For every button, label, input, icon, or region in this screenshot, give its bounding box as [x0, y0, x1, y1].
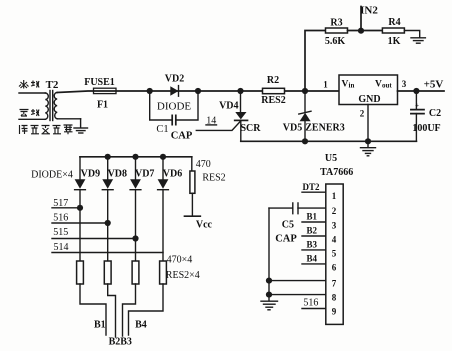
pin 4 (B2): [302, 226, 337, 245]
node: 517-VD9: [77, 205, 83, 211]
net 514: [52, 242, 163, 253]
wire: regulator pin2: [367, 105, 369, 142]
svg-text:out: out: [382, 82, 392, 90]
svg-text:B4: B4: [135, 320, 147, 331]
svg-text:5: 5: [332, 249, 337, 259]
ground (R4): [411, 38, 425, 43]
power Vcc: [185, 216, 213, 230]
svg-text:3: 3: [332, 221, 337, 231]
zener diode VD5: [283, 91, 345, 141]
svg-text:CAP: CAP: [171, 131, 193, 142]
svg-text:B3: B3: [307, 240, 318, 250]
wire: B2 output: [108, 284, 116, 337]
thyristor VD4 (SCR): [196, 91, 261, 141]
wire: riser to R3: [305, 31, 326, 92]
ground (IC): [261, 295, 278, 310]
wire: R3 to R4: [348, 30, 383, 32]
ground (regulator): [361, 141, 376, 156]
svg-text:VD7: VD7: [135, 169, 154, 180]
net IN2: [360, 5, 378, 31]
svg-text:470: 470: [196, 159, 211, 170]
node: rail-VD8: [105, 154, 111, 160]
svg-text:VD5: VD5: [283, 123, 302, 134]
svg-text:3: 3: [402, 79, 407, 89]
node: pin8 junction: [266, 292, 272, 298]
diode VD2: [157, 74, 191, 113]
svg-text:6: 6: [332, 263, 337, 273]
node: 516-VD8: [105, 220, 111, 226]
capacitor C2: [411, 91, 441, 141]
transformer T2 primary winding: [19, 93, 48, 119]
svg-text:B1: B1: [94, 320, 106, 331]
node: VD2 cathode junction: [195, 88, 201, 94]
svg-text:V: V: [375, 80, 382, 90]
wire: AC main horizontal: [57, 91, 339, 93]
svg-text:14: 14: [206, 116, 216, 127]
resistor RES2x4 #2: [104, 261, 111, 284]
pin 7: [269, 279, 337, 289]
svg-text:DT2: DT2: [302, 182, 320, 192]
label 降压变压器: [20, 125, 73, 134]
svg-text:GND: GND: [358, 94, 380, 105]
node: 515-VD7: [132, 235, 138, 241]
resistor R2: [261, 75, 285, 106]
wire: bottom rail: [241, 140, 417, 142]
wire: C5/pin7/pin8 vertical: [268, 208, 270, 295]
svg-text:B1: B1: [307, 212, 318, 222]
resistor R (470 pull to Vcc): [190, 157, 226, 216]
svg-text:1K: 1K: [388, 36, 401, 47]
svg-text:Vcc: Vcc: [196, 220, 213, 231]
svg-text:+: +: [415, 102, 419, 110]
pin 2 / capacitor C5: [269, 203, 337, 245]
transformer T2 secondary winding: [54, 93, 80, 119]
pin 6 (B4): [302, 254, 337, 273]
label 火线: [19, 80, 39, 89]
svg-text:2: 2: [360, 109, 365, 119]
svg-text:in: in: [349, 82, 355, 90]
svg-text:C1: C1: [156, 124, 168, 135]
svg-text:DIODE×4: DIODE×4: [31, 170, 73, 181]
svg-text:R4: R4: [388, 17, 400, 28]
svg-text:R2: R2: [267, 75, 279, 86]
capacitor C1 (parallel loop under VD2): [150, 91, 198, 142]
svg-text:2: 2: [332, 206, 337, 216]
svg-text:VD6: VD6: [163, 169, 182, 180]
svg-text:516: 516: [303, 298, 318, 309]
svg-text:515: 515: [53, 227, 68, 238]
svg-text:IN2: IN2: [360, 5, 378, 17]
svg-text:8: 8: [332, 293, 337, 303]
svg-text:SCR: SCR: [240, 123, 261, 134]
wire: Vout to +5V: [398, 90, 445, 92]
svg-text:VD9: VD9: [81, 169, 100, 180]
pin 3 (B1): [302, 212, 337, 231]
svg-text:100UF: 100UF: [412, 123, 440, 134]
svg-text:470×4: 470×4: [167, 254, 193, 265]
pin 1 (DT2): [302, 182, 337, 201]
diode VD7: [130, 157, 154, 261]
resistor R4: [382, 17, 404, 47]
svg-text:B2: B2: [109, 337, 121, 348]
svg-text:+5V: +5V: [424, 79, 444, 91]
node: R2 right / VD5 / R3 riser junction: [302, 88, 308, 94]
node: pin7 junction: [266, 278, 272, 284]
svg-text:9: 9: [332, 307, 337, 317]
net 517: [52, 198, 80, 209]
IC U5 TA7666 body: [326, 184, 343, 324]
svg-text:7: 7: [332, 279, 337, 289]
wire: B4 output: [129, 284, 164, 335]
svg-text:U5: U5: [325, 153, 337, 164]
svg-text:516: 516: [53, 212, 68, 223]
node: rail-VD7: [132, 154, 138, 160]
transformer T2 core: [50, 91, 53, 121]
svg-text:VD2: VD2: [165, 74, 184, 85]
voltage regulator (Vin/Vout/GND): [339, 75, 398, 105]
svg-text:CAP: CAP: [275, 234, 297, 245]
svg-text:RES2×4: RES2×4: [166, 270, 200, 281]
svg-text:VD4: VD4: [219, 101, 238, 112]
svg-text:C2: C2: [429, 108, 441, 119]
diode VD9: [75, 157, 101, 261]
resistor RES2x4 #1: [77, 261, 84, 284]
svg-text:C5: C5: [282, 220, 294, 231]
pin 5 (B3): [302, 240, 337, 259]
diode VD6: [158, 157, 183, 261]
svg-text:B4: B4: [307, 254, 318, 264]
svg-text:1: 1: [323, 80, 328, 90]
svg-text:5.6K: 5.6K: [325, 36, 346, 47]
net 515: [52, 227, 136, 239]
svg-text:DIODE: DIODE: [157, 101, 191, 113]
svg-text:4: 4: [332, 235, 337, 245]
svg-text:B3: B3: [120, 337, 132, 348]
svg-text:TA7666: TA7666: [320, 167, 353, 178]
diode VD8: [102, 157, 127, 261]
node: VD2 anode junction: [147, 88, 153, 94]
resistor RES2x4 #3: [132, 261, 139, 284]
pin 8: [269, 293, 337, 303]
svg-text:T2: T2: [46, 79, 59, 91]
svg-text:R3: R3: [330, 18, 342, 29]
node IN2 junction: [358, 28, 364, 34]
wire: diode matrix top rail: [80, 156, 192, 158]
wire: R4 to ground: [404, 31, 419, 38]
wire: B3 output: [123, 284, 136, 336]
pin 9 (516): [302, 298, 337, 317]
node: rail-VD6: [160, 154, 166, 160]
resistor RES2x4 #4: [160, 261, 167, 284]
wire: B1 output: [80, 284, 106, 335]
ground (transformer): [74, 119, 88, 133]
svg-text:514: 514: [54, 242, 69, 253]
svg-text:VD8: VD8: [108, 169, 127, 180]
node: SCR anode junction: [237, 88, 243, 94]
node: GND pin junction: [365, 138, 371, 144]
resistor R3: [325, 18, 348, 48]
svg-text:1: 1: [332, 191, 337, 201]
net 516: [52, 212, 108, 223]
svg-text:B2: B2: [307, 226, 318, 236]
svg-text:FUSE1: FUSE1: [84, 77, 115, 88]
svg-text:F1: F1: [97, 100, 108, 111]
svg-text:V: V: [342, 80, 349, 90]
label 零线: [20, 109, 40, 116]
node: VD5 bottom junction: [302, 138, 308, 144]
fuse F1: [84, 77, 116, 111]
node: +5V junction: [413, 88, 419, 94]
svg-text:ZENER3: ZENER3: [305, 123, 344, 134]
svg-text:RES2: RES2: [261, 95, 285, 106]
svg-text:RES2: RES2: [202, 173, 225, 184]
